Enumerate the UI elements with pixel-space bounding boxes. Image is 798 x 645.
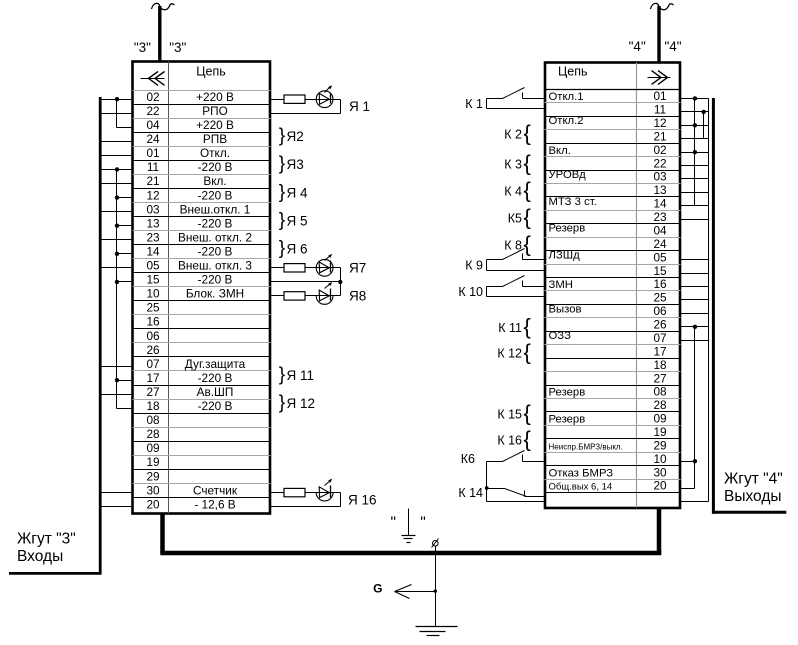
junction dot at pin 12	[693, 123, 697, 127]
svg-text:Неиспр.БМРЗ/выкл.: Неиспр.БМРЗ/выкл.	[549, 442, 623, 451]
harness "3" boundary (thick L line)	[9, 97, 102, 575]
junction dot -220V bus at pin 15	[115, 280, 119, 284]
svg-text:24: 24	[146, 132, 160, 146]
label "4" right of stub	[664, 39, 681, 54]
ground bus horizontal	[160, 551, 661, 556]
svg-text:07: 07	[653, 331, 666, 345]
svg-text:-220 В: -220 В	[198, 399, 233, 413]
svg-text:05: 05	[146, 259, 160, 273]
shield ground symbol with quotes	[391, 509, 426, 543]
wire output pin 26 (X4 to bus)	[681, 326, 709, 328]
svg-text:{: {	[524, 314, 531, 339]
svg-text:Жгут "3": Жгут "3"	[17, 531, 76, 548]
wire output pin 22 (X4 to bus)	[681, 165, 709, 167]
svg-text:15: 15	[653, 264, 667, 278]
svg-text:Отказ БМРЗ: Отказ БМРЗ	[549, 467, 614, 479]
relay contact group К5 (brace)	[508, 204, 531, 229]
connector X4 pin numbers and circuit names	[549, 89, 667, 493]
svg-text:Счетчик: Счетчик	[193, 483, 238, 497]
svg-text:Я 16: Я 16	[348, 492, 377, 507]
wire output pin 20 (X4 to node)	[681, 488, 695, 490]
svg-text:21: 21	[146, 174, 159, 188]
junction dot at pin 26	[693, 325, 697, 329]
wire input pin 11 (harness to X3)	[102, 169, 133, 171]
svg-text:16: 16	[653, 277, 667, 291]
svg-text:Я8: Я8	[349, 289, 366, 304]
svg-text:G: G	[373, 582, 382, 596]
wire input pin 27 (harness to X3)	[102, 394, 133, 396]
label Жгут "4"	[724, 471, 783, 488]
wire output pin 11 (X4 to bus)	[681, 111, 709, 113]
junction dot -220V bus at pin 11	[115, 167, 119, 171]
wire input pin 22 (harness to X3)	[102, 113, 133, 115]
junction dot К14 common	[485, 486, 489, 490]
svg-text:УРОВд: УРОВд	[549, 169, 587, 181]
svg-text:26: 26	[653, 318, 667, 332]
svg-text:05: 05	[653, 250, 667, 264]
wire input pin 21 (harness to X3)	[102, 183, 133, 185]
svg-text:12: 12	[653, 116, 666, 130]
relay contact К 14 (pin 20 / common)	[458, 486, 544, 502]
svg-text:19: 19	[146, 455, 159, 469]
wire input pin 02 (harness to X3)	[102, 99, 133, 101]
svg-text:-220 В: -220 В	[198, 160, 233, 174]
wire input pin 20 (harness to X3)	[102, 506, 133, 508]
svg-text:Резерв: Резерв	[549, 387, 586, 399]
svg-text:Выходы: Выходы	[724, 488, 782, 505]
svg-text:{: {	[524, 400, 531, 425]
svg-text:К 4: К 4	[504, 185, 522, 199]
wire +220V bus vertical (02-04)	[116, 100, 118, 128]
node vertical 11-21	[703, 112, 705, 139]
indicator Я 16 (resistor + LED, pins 30-20)	[271, 479, 377, 508]
svg-text:К 8: К 8	[504, 239, 522, 253]
svg-text:"4": "4"	[664, 39, 681, 54]
svg-text:Внеш. откл. 3: Внеш. откл. 3	[178, 259, 252, 273]
svg-text:Цепь: Цепь	[558, 65, 587, 79]
svg-text:20: 20	[653, 479, 667, 493]
svg-text:Откл.2: Откл.2	[549, 115, 584, 127]
cable stub connector X4 (top)	[651, 3, 674, 62]
earth ground symbol	[416, 627, 458, 636]
group brace Я3	[279, 154, 304, 175]
svg-text:29: 29	[653, 438, 666, 452]
svg-text:04: 04	[653, 224, 667, 238]
svg-text:Я 4: Я 4	[287, 185, 309, 200]
svg-text:Блок. ЗМН: Блок. ЗМН	[186, 287, 244, 301]
junction dot at pin 02	[693, 150, 697, 154]
junction dot -220V bus at pin 13	[115, 224, 119, 228]
svg-text:14: 14	[653, 197, 667, 211]
relay contact group К 2 (brace)	[504, 120, 531, 145]
node vertical 26-10-20	[694, 327, 696, 489]
wire input pin 30 (harness to X3)	[102, 492, 133, 494]
connector X3 header separator	[133, 90, 271, 92]
wire output empty pin (X4 to bus)	[681, 501, 709, 503]
relay contact group К 15 (brace)	[497, 400, 531, 425]
svg-text:{: {	[524, 120, 531, 145]
svg-text:03: 03	[146, 202, 160, 216]
svg-text:ЛЗШд: ЛЗШд	[549, 250, 581, 262]
svg-text:К 11: К 11	[498, 321, 522, 335]
label "3" right of stub	[169, 40, 186, 55]
svg-text:10: 10	[146, 287, 160, 301]
connector X4 header separator	[545, 89, 681, 91]
svg-text:28: 28	[653, 398, 667, 412]
svg-text:25: 25	[653, 291, 667, 305]
svg-text:К 16: К 16	[497, 434, 522, 448]
svg-text:15: 15	[146, 273, 160, 287]
junction dot node +220V at pin 02	[115, 97, 119, 101]
wire pin 15 to indicator junction	[271, 281, 341, 283]
svg-text:02: 02	[146, 90, 159, 104]
svg-text:09: 09	[146, 441, 159, 455]
wire input pin 01 (harness to X3)	[102, 155, 133, 157]
svg-text:06: 06	[653, 304, 667, 318]
svg-text:К 10: К 10	[458, 285, 483, 299]
label Входы	[17, 548, 63, 565]
svg-text:28: 28	[146, 427, 160, 441]
svg-text:К 3: К 3	[504, 158, 522, 172]
group brace Я 6	[279, 238, 308, 259]
header plug symbol (X4)	[648, 71, 671, 85]
svg-text:-220 В: -220 В	[198, 371, 233, 385]
svg-text:22: 22	[653, 156, 666, 170]
svg-text:Я 5: Я 5	[287, 213, 308, 228]
label Жгут "3"	[17, 531, 76, 548]
svg-text:-220 В: -220 В	[198, 188, 233, 202]
svg-text:"3": "3"	[169, 40, 186, 55]
svg-text:17: 17	[146, 371, 159, 385]
wire output pin 14 (X4 to bus)	[681, 205, 709, 207]
svg-text:13: 13	[653, 183, 667, 197]
svg-text:-220 В: -220 В	[198, 273, 233, 287]
group brace Я 11	[279, 365, 314, 386]
svg-text:{: {	[524, 204, 531, 229]
svg-text:Ав.ШП: Ав.ШП	[197, 385, 234, 399]
junction dot -220V bus at pin 12	[115, 195, 119, 199]
svg-text:Внеш.откл. 1: Внеш.откл. 1	[180, 202, 251, 216]
svg-text:К 9: К 9	[465, 258, 483, 272]
svg-text:Резерв: Резерв	[549, 414, 586, 426]
svg-text:К 12: К 12	[497, 347, 522, 361]
connector X3 row grid lines	[133, 105, 271, 498]
label "4" left of stub	[629, 39, 646, 54]
svg-text:04: 04	[146, 118, 160, 132]
wire output pin 21 (X4 to bus)	[681, 138, 709, 140]
relay contact group К 8 (brace)	[504, 231, 531, 256]
svg-text:16: 16	[146, 315, 160, 329]
svg-text:11: 11	[147, 160, 159, 174]
svg-text:27: 27	[653, 371, 666, 385]
svg-text:02: 02	[653, 143, 666, 157]
wire pin 15 (bus to X3)	[117, 281, 133, 283]
indicator Я 1 (resistor + LED, pins 02-22)	[271, 85, 371, 114]
connector X4 table frame	[545, 63, 680, 508]
svg-text:08: 08	[146, 413, 160, 427]
group brace Я 4	[279, 182, 308, 203]
svg-text:26: 26	[146, 343, 160, 357]
svg-text:К 2: К 2	[504, 128, 522, 142]
svg-text:}: }	[279, 365, 285, 386]
junction dot at pin 01	[693, 96, 697, 100]
svg-text:23: 23	[146, 230, 160, 244]
header label "Цепь" (X3)	[196, 65, 225, 79]
junction dot Я7/Я8 common return	[338, 280, 342, 284]
group brace Я2	[279, 126, 304, 147]
svg-text:01: 01	[146, 146, 159, 160]
svg-text:Резерв: Резерв	[549, 223, 586, 235]
svg-text:-220 В: -220 В	[198, 216, 233, 230]
svg-text:Откл.: Откл.	[200, 146, 230, 160]
svg-text:20: 20	[146, 497, 160, 511]
relay contact К 1 (pins 01/11)	[465, 88, 544, 112]
svg-text:}: }	[279, 210, 285, 231]
relay contact К 10 (pins 16/25)	[458, 276, 544, 300]
junction dot -220V bus at pin 17	[115, 378, 119, 382]
wire input pin 05 (harness to X3)	[102, 267, 133, 269]
svg-text:18: 18	[653, 358, 667, 372]
svg-text:{: {	[524, 231, 531, 256]
svg-text:К6: К6	[461, 452, 475, 466]
junction dot at pin 11	[702, 110, 706, 114]
relay contact К6 (pin 10 / common)	[461, 451, 545, 502]
wire -220V bus vertical (11-18)	[116, 170, 118, 409]
connector X3 table frame	[133, 62, 271, 514]
wire output pin 16 (X4 to bus)	[681, 286, 709, 288]
svg-text:{: {	[524, 177, 531, 202]
wire pin 12 (bus to X3)	[117, 197, 133, 199]
svg-text:18: 18	[146, 399, 160, 413]
svg-text:МТЗ 3 ст.: МТЗ 3 ст.	[549, 196, 597, 208]
svg-text:23: 23	[653, 210, 667, 224]
header label "Цепь" (X4)	[558, 65, 587, 79]
svg-text:07: 07	[146, 357, 159, 371]
wire output pin 03 (X4 to bus)	[681, 178, 709, 180]
wire input pin 07 (harness to X3)	[102, 366, 133, 368]
group brace Я 12	[279, 393, 315, 414]
svg-text:}: }	[279, 154, 285, 175]
svg-text:Вкл.: Вкл.	[203, 174, 226, 188]
svg-text:17: 17	[653, 344, 666, 358]
label "G"	[373, 582, 382, 596]
wire output pin 15 (X4 to bus)	[681, 273, 709, 275]
svg-text:Общ.вых 6, 14: Общ.вых 6, 14	[549, 482, 613, 493]
svg-text:{: {	[524, 339, 531, 364]
svg-text:24: 24	[653, 237, 667, 251]
svg-text:10: 10	[653, 452, 667, 466]
svg-text:08: 08	[653, 385, 667, 399]
svg-text:Жгут "4": Жгут "4"	[724, 471, 783, 488]
connector X3 pin numbers and circuit names	[146, 90, 252, 512]
output bus vertical (harness 4)	[708, 99, 710, 502]
svg-text:14: 14	[146, 245, 160, 259]
svg-text:Я 1: Я 1	[349, 99, 370, 114]
node vertical 01-12-02-14	[694, 99, 696, 206]
wire output pin 13 (X4 to bus)	[681, 192, 709, 194]
relay contact group К 12 (brace)	[497, 339, 531, 364]
svg-text:Вкл.: Вкл.	[549, 145, 571, 157]
svg-text:Дуг.защита: Дуг.защита	[185, 357, 246, 371]
svg-text:"4": "4"	[629, 39, 646, 54]
svg-text:Я 6: Я 6	[287, 241, 308, 256]
relay contact group К 3 (brace)	[504, 150, 531, 175]
svg-text:21: 21	[653, 129, 666, 143]
wire pin 17 (bus to X3)	[117, 380, 133, 382]
svg-text:}: }	[279, 393, 285, 414]
relay contact group К 16 (brace)	[497, 426, 531, 451]
svg-text:Внеш. откл. 2: Внеш. откл. 2	[178, 230, 252, 244]
indicator Я8 (resistor + LED, pin 10)	[271, 282, 367, 305]
svg-text:03: 03	[653, 170, 667, 184]
wire pin 14 (bus to X3)	[117, 253, 133, 255]
wire earth vertical	[435, 547, 437, 627]
relay contact К 9 (pins 05/15)	[465, 249, 544, 273]
svg-text:"3": "3"	[134, 40, 151, 55]
wire output pin 25 (X4 to bus)	[681, 299, 709, 301]
wire pin 18 (bus to X3)	[117, 408, 133, 410]
wire input pin 03 (harness to X3)	[102, 211, 133, 213]
ground bus stub from X3	[160, 514, 165, 554]
wire output pin 01 (X4 to bus)	[681, 98, 709, 100]
svg-text:09: 09	[653, 412, 666, 426]
svg-text:РПО: РПО	[202, 104, 228, 118]
relay contact group К 4 (brace)	[504, 177, 531, 202]
header socket symbol (X3)	[141, 72, 165, 86]
label "3" left of stub	[134, 40, 151, 55]
svg-text:11: 11	[654, 103, 666, 117]
wire output pin 05 (X4 to bus)	[681, 259, 709, 261]
svg-text:- 12,6 В: - 12,6 В	[194, 497, 235, 511]
connector X4 row grid lines	[545, 103, 681, 493]
svg-text:27: 27	[146, 385, 159, 399]
svg-text:К 1: К 1	[465, 97, 483, 111]
svg-text:": "	[391, 515, 397, 532]
wire input pin 24 (harness to X3)	[102, 141, 133, 143]
node ø (earth tap on bus)	[432, 539, 439, 548]
svg-text:Входы: Входы	[17, 548, 63, 565]
wire output pin 23 (X4 to bus)	[681, 219, 709, 221]
svg-text:22: 22	[146, 104, 159, 118]
svg-text:Откл.1: Откл.1	[549, 91, 584, 103]
svg-text:01: 01	[653, 89, 666, 103]
cable stub connector X3 (top)	[152, 3, 175, 61]
svg-text:Я2: Я2	[287, 129, 304, 144]
svg-text:19: 19	[653, 425, 666, 439]
wire output pin 06 (X4 to bus)	[681, 313, 709, 315]
svg-text:{: {	[524, 150, 531, 175]
wire output pin 12 (X4 to bus)	[681, 125, 709, 127]
indicator Я7 (resistor + LED, pin 05)	[271, 254, 367, 282]
svg-text:Я 11: Я 11	[287, 368, 315, 383]
svg-text:}: }	[279, 238, 285, 259]
svg-text:30: 30	[653, 465, 667, 479]
junction dot at pin 10	[693, 459, 697, 463]
svg-text:ОЗЗ: ОЗЗ	[549, 330, 572, 342]
label Выходы	[724, 488, 782, 505]
svg-text:+220 В: +220 В	[196, 118, 234, 132]
svg-text:06: 06	[146, 329, 160, 343]
G arrow (to frame ground)	[395, 585, 436, 599]
svg-text:12: 12	[146, 188, 159, 202]
wire pin 13 (bus to X3)	[117, 225, 133, 227]
svg-text:{: {	[524, 426, 531, 451]
junction dot -220V bus at pin 14	[115, 252, 119, 256]
svg-text:Вызов: Вызов	[549, 303, 582, 315]
svg-text:К5: К5	[508, 212, 522, 226]
svg-text:": "	[420, 515, 426, 532]
svg-text:13: 13	[146, 216, 160, 230]
svg-text:}: }	[279, 126, 285, 147]
svg-text:РПВ: РПВ	[203, 132, 227, 146]
wire output pin 07 (X4 to bus)	[681, 340, 709, 342]
junction dot G tap	[434, 589, 437, 592]
svg-text:Я3: Я3	[287, 157, 304, 172]
svg-text:}: }	[279, 182, 285, 203]
svg-text:25: 25	[146, 301, 160, 315]
svg-text:Цепь: Цепь	[196, 65, 225, 79]
svg-text:Я 12: Я 12	[287, 396, 316, 411]
ground bus stub from X4	[657, 508, 662, 553]
wire output pin 02 (X4 to bus)	[681, 152, 709, 154]
wire output pin 10 (X4 to node)	[681, 461, 695, 463]
svg-text:+220 В: +220 В	[196, 90, 234, 104]
svg-text:ЗМН: ЗМН	[549, 279, 573, 291]
svg-text:К 14: К 14	[458, 486, 483, 500]
wire input pin 23 (harness to X3)	[102, 239, 133, 241]
svg-text:30: 30	[146, 483, 160, 497]
svg-text:Я7: Я7	[349, 261, 366, 276]
svg-text:29: 29	[146, 469, 159, 483]
harness "4" boundary (thick L line)	[712, 98, 786, 514]
svg-text:К 15: К 15	[497, 408, 522, 422]
svg-text:-220 В: -220 В	[198, 245, 233, 259]
relay contact group К 11 (brace)	[498, 314, 531, 339]
wire pin 04 (bus to X3)	[117, 127, 133, 129]
group brace Я 5	[279, 210, 308, 231]
